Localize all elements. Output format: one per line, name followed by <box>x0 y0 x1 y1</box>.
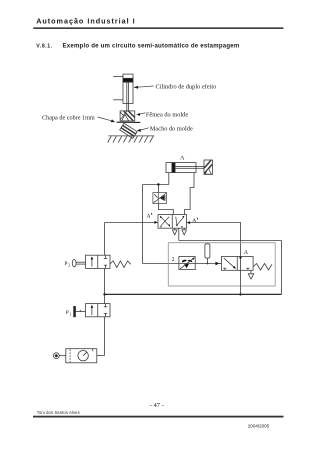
supply bus <box>105 293 282 295</box>
blocked port T right box <box>247 268 249 270</box>
right riser <box>281 241 283 295</box>
blocked port T left box <box>224 268 226 270</box>
P1 pushbutton (plate) <box>74 306 86 316</box>
valve P1 (3/2 pushbutton) <box>86 304 111 317</box>
label: Femea do molde <box>136 111 188 118</box>
mech cylinder bottom port line <box>113 99 123 101</box>
svg-text:Fêmea do molde: Fêmea do molde <box>146 111 188 118</box>
up arrow left box <box>91 258 93 267</box>
svg-text:A: A <box>192 218 196 224</box>
5/2 directional valve V1 <box>158 215 187 229</box>
T bottom right box <box>105 265 107 268</box>
cylinder A piston <box>172 163 175 173</box>
svg-text:Chapa de cobre 1mm: Chapa de cobre 1mm <box>42 114 95 121</box>
svg-text:V.8.1.: V.8.1. <box>36 44 52 50</box>
supply stub under V1 <box>178 228 180 240</box>
svg-text:2: 2 <box>68 262 70 267</box>
female mold (hatched block with notch) <box>120 111 135 121</box>
wire P2 bottom port down to bus <box>104 268 106 294</box>
label: Cilindro de duplo efeito <box>133 83 216 90</box>
reservoir <box>205 244 210 264</box>
up arrow left box <box>91 306 93 315</box>
footer rule <box>33 416 284 418</box>
junction dot valve A top port <box>239 257 241 259</box>
svg-text:A: A <box>244 250 249 256</box>
T top right box <box>105 304 107 307</box>
port tick marks inside V1 <box>160 227 183 229</box>
valve A through line (output up / supply down) <box>240 257 242 295</box>
pilot wire from P2 to V1 left <box>105 222 155 224</box>
exhaust stub+triangle right under V1 <box>183 228 185 230</box>
internals right box: parallel arrows <box>177 217 184 226</box>
wire flow control 2 to timer valve A with arrow <box>195 263 216 265</box>
label: Macho do molde <box>137 126 193 133</box>
wire: horizontal branch under cylinder <box>143 184 169 186</box>
header rule <box>33 27 283 29</box>
junction dot at branch <box>157 183 159 185</box>
wire: cylinder A right port to valve V1 right output <box>185 173 195 215</box>
wire P2 top port up to pilot line <box>104 223 106 295</box>
mech piston black band <box>123 78 133 82</box>
timer 3/2 valve A <box>221 257 253 271</box>
junction dot valve A bottom to bus <box>239 293 241 295</box>
wire: down to flow control <box>157 185 159 193</box>
svg-text:2: 2 <box>172 257 175 263</box>
long branch wire to timer flow control <box>143 185 179 264</box>
svg-text:A: A <box>147 214 151 220</box>
air service unit <box>66 349 97 363</box>
svg-text:1: 1 <box>69 311 71 316</box>
male mold (slanted hatched block) <box>120 123 137 138</box>
air source circle <box>53 353 65 359</box>
svg-text:P: P <box>66 310 69 316</box>
timer flow control valve 2 <box>179 257 195 270</box>
internals left box: crossed arrows <box>161 217 169 226</box>
supply wire V1 to right riser <box>179 241 282 295</box>
wire: flow control to valve V1 left output <box>158 203 173 214</box>
cylinder A rod <box>175 166 204 168</box>
svg-text:P: P <box>64 261 67 267</box>
wire: cylinder A left port down <box>143 173 169 193</box>
junction dot reservoir <box>207 263 209 265</box>
svg-text:Macho do molde: Macho do molde <box>150 126 193 133</box>
stamping tool on rod (hatched block) <box>204 160 213 174</box>
T top right box <box>105 255 107 258</box>
label: Chapa de cobre 1mm <box>42 114 115 122</box>
P2 spring <box>110 261 131 268</box>
one-way flow control valve (top) <box>153 193 167 204</box>
mech piston rod <box>127 82 129 111</box>
copper sheet line <box>117 121 141 123</box>
P2 pushbutton <box>72 259 85 266</box>
exhaust under valve A <box>248 270 254 279</box>
svg-text:- 47 -: - 47 - <box>150 402 164 409</box>
mech cylinder top port line <box>113 75 123 77</box>
ground line under male mold <box>108 136 155 143</box>
svg-text:Exemplo de um circuito semi-au: Exemplo de um circuito semi-automático d… <box>63 43 240 50</box>
wire P1 bottom port down to air service <box>104 317 106 356</box>
exhaust stub+triangle left under V1 <box>172 228 186 240</box>
wire P1 top port up to bus <box>97 294 105 355</box>
timer enclosure box <box>168 243 275 286</box>
mech vertical cylinder body <box>123 74 133 103</box>
svg-text:Toni dos Santos Alves: Toni dos Santos Alves <box>37 410 80 415</box>
T bottom right box <box>105 314 107 317</box>
svg-text:2004/2005: 2004/2005 <box>248 423 270 428</box>
spring valve A <box>253 264 272 271</box>
svg-text:Cilindro de duplo efeito: Cilindro de duplo efeito <box>156 83 217 90</box>
junction dot bus left <box>103 293 105 295</box>
ground hatching <box>108 136 112 142</box>
cylinder A body <box>166 163 204 173</box>
svg-text:A: A <box>180 154 185 161</box>
pilot wire from timer valve to V1 right <box>190 223 241 257</box>
internals: diagonal arrow left box <box>224 258 235 268</box>
valve P2 (3/2 pushbutton) <box>86 255 111 268</box>
svg-text:Automação Industrial I: Automação Industrial I <box>36 16 135 25</box>
